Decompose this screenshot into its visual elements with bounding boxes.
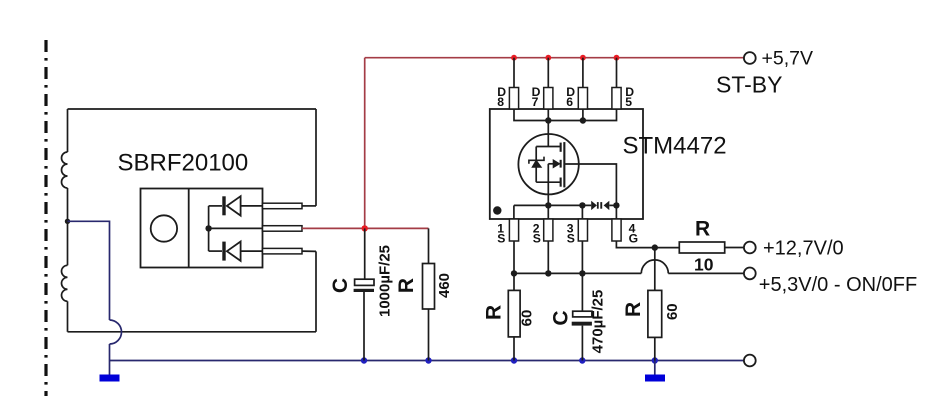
diode D1a cathode bar (222, 196, 225, 215)
svg-text:G: G (629, 231, 638, 245)
mosfet substrate contact bar (560, 160, 562, 168)
tvs diode left (591, 201, 597, 210)
terminal +5,7V (744, 52, 756, 64)
body zener triangle (532, 160, 541, 167)
wire D7 drop (547, 58, 549, 88)
inductor L1 secondary winding upper (62, 152, 68, 188)
node R460 ground (425, 357, 431, 363)
node D6 (580, 55, 586, 61)
mosfet source contact bar (560, 178, 562, 187)
node D8 (511, 55, 517, 61)
wire source rail to S1 (513, 205, 515, 219)
wire right edge lower (315, 251, 317, 331)
node C ground (361, 357, 367, 363)
resistor R1 body (423, 264, 435, 310)
svg-text:+5,7V: +5,7V (762, 48, 814, 70)
wire top pin to loop (302, 205, 316, 207)
node gate rail (613, 202, 619, 208)
node source bus S3 (579, 270, 585, 276)
wire source drop (547, 182, 549, 219)
wire S2 down (547, 241, 549, 273)
resistor R3 body (648, 290, 662, 337)
wire red riser (364, 58, 366, 229)
wire red top bus (365, 57, 744, 59)
svg-text:1000µF/25: 1000µF/25 (377, 245, 394, 317)
svg-text:STM4472: STM4472 (623, 133, 727, 160)
mosfet left branch lower (535, 167, 537, 182)
pin S2 box (544, 219, 553, 241)
body zener bar (529, 157, 544, 164)
tvs diode right (604, 201, 610, 210)
pin S1 box (509, 219, 518, 241)
resistor R4 right wire (725, 247, 744, 249)
wire tvs right link (609, 204, 616, 206)
wire source rail internal (514, 204, 591, 206)
svg-text:+5,3V/0 - ON/0FF: +5,3V/0 - ON/0FF (759, 274, 917, 296)
wire ground bus (blue) (110, 360, 744, 362)
svg-text:ST-BY: ST-BY (716, 72, 782, 98)
svg-text:7: 7 (532, 95, 539, 109)
node source rail S3 (579, 202, 585, 208)
capacitor C2 470uF top wire (581, 273, 583, 311)
node D5 (614, 55, 620, 61)
node drain bus 2 (580, 117, 586, 123)
wire to ON/OFF terminal (668, 272, 744, 274)
pin stub middle (263, 226, 303, 232)
pin stub top (263, 203, 303, 209)
node C470 ground (579, 357, 585, 363)
wire D8 drop (513, 58, 515, 88)
pin S3 box (578, 219, 587, 241)
diode D1b anode wire (241, 250, 263, 252)
wire hop over R60b (641, 260, 668, 274)
mosfet substrate wire (548, 163, 554, 165)
node common cathode (205, 225, 211, 231)
wire hop over bottom edge (110, 320, 122, 344)
pin D8 box (509, 88, 518, 110)
inductor L2 secondary winding lower (62, 265, 68, 301)
wire cathode to middle pin (209, 227, 263, 229)
ground left (100, 375, 120, 382)
capacitor C2 minus plate (572, 322, 592, 326)
resistor R4 body (679, 242, 724, 253)
pin G4 box (612, 219, 621, 241)
svg-text:C: C (329, 278, 352, 293)
svg-text:SBRF20100: SBRF20100 (118, 150, 249, 177)
wire center tap to ground (blue) (68, 221, 110, 320)
pin 1 marker (493, 206, 501, 214)
pin D5 box (612, 88, 621, 110)
resistor R2 body (508, 290, 520, 337)
dash-dot mains isolation line (44, 40, 47, 396)
svg-text:6: 6 (566, 95, 573, 109)
node source bus S1 (511, 270, 517, 276)
wire right edge upper (315, 109, 317, 206)
wire bottom edge (68, 331, 317, 333)
svg-text:8: 8 (497, 95, 504, 109)
resistor R2 60a top wire (513, 273, 515, 290)
node source rail S2 (545, 202, 551, 208)
wire left edge upper (67, 109, 69, 152)
diode D1b lower: wire to bar (209, 250, 222, 252)
diode D1a anode wire (241, 205, 263, 207)
capacitor C1 minus plate (354, 289, 374, 292)
tvs bar left (597, 202, 599, 209)
resistor R3 bottom wire (654, 337, 656, 360)
mosfet left branch upper (535, 147, 537, 161)
wire D5 drop (616, 58, 618, 88)
wire common cathode (208, 206, 210, 251)
pin D6 box (578, 88, 587, 110)
diode D1b cathode bar (222, 242, 225, 261)
wire left edge lower (67, 301, 69, 332)
terminal ON/OFF (744, 268, 756, 280)
mosfet bottom rail (536, 181, 560, 183)
svg-text:C: C (550, 310, 573, 325)
svg-text:R: R (695, 218, 710, 241)
node center tap (65, 219, 70, 224)
pin stub bottom (263, 248, 303, 254)
mosfet substrate arrow (553, 160, 560, 168)
svg-text:S: S (567, 231, 575, 245)
diode D1a upper: wire to bar (209, 205, 222, 207)
node red junction (362, 225, 368, 231)
resistor R1 bottom wire (428, 309, 430, 361)
node gate junction (652, 244, 658, 250)
capacitor C1 plus plate (355, 279, 374, 285)
node drain bus 1 (545, 117, 551, 123)
ground right (645, 375, 665, 382)
diode D1b triangle (227, 242, 241, 261)
wire left edge middle (67, 188, 69, 265)
svg-text:R: R (622, 302, 645, 317)
transistor symbol circle (518, 134, 578, 194)
svg-text:10: 10 (694, 255, 714, 275)
svg-text:5: 5 (625, 95, 632, 109)
svg-text:+12,7V/0: +12,7V/0 (763, 238, 844, 260)
svg-text:60: 60 (519, 310, 536, 327)
wire D6 drop (582, 58, 584, 88)
wire gate run (565, 164, 616, 219)
wire down to ground (109, 344, 111, 375)
capacitor C2 bottom wire (581, 326, 583, 361)
transistor U1 STM4472 body (490, 109, 643, 219)
wire bottom pin to loop (302, 250, 316, 252)
diode D1a triangle (227, 196, 241, 215)
wire transformer loop: top edge (68, 108, 317, 110)
capacitor C1 bottom wire (363, 292, 365, 361)
node source bus S2 (545, 270, 551, 276)
mosfet gate plate (563, 142, 565, 187)
wire source bus (514, 272, 641, 274)
node R60b ground (652, 357, 658, 363)
wire S3 internal (581, 205, 583, 219)
svg-text:R: R (482, 305, 505, 320)
node D7 (545, 55, 551, 61)
mosfet top rail (536, 146, 560, 148)
resistor R4 10 left wire (655, 247, 680, 249)
diode pack D1 SBRF20100 body (141, 189, 263, 268)
wire D7 internal (547, 109, 549, 147)
mosfet drain contact bar (560, 143, 562, 152)
wire G4 down to R junction (616, 241, 654, 248)
capacitor C1 1000uF: top wire (364, 228, 366, 279)
tvs bar right (600, 202, 602, 209)
svg-text:470µF/25: 470µF/25 (590, 290, 607, 354)
terminal +12,7V (744, 242, 756, 254)
mosfet center vertical (547, 164, 549, 182)
capacitor C2 plus plate (573, 311, 592, 317)
svg-text:R: R (395, 278, 418, 293)
svg-text:460: 460 (436, 273, 453, 298)
wire D6 internal (582, 109, 584, 121)
wire S3 down (581, 241, 583, 273)
resistor R1 460: top wire (428, 228, 430, 263)
resistor R2 bottom wire (513, 337, 515, 361)
svg-text:S: S (533, 231, 541, 245)
wire drain bus internal (514, 109, 617, 121)
diode pack mounting hole (151, 215, 177, 241)
wire S1 down (513, 241, 515, 273)
diode pack divider (188, 189, 190, 268)
node R60a ground (511, 357, 517, 363)
resistor R3 60b top wire (654, 248, 656, 291)
svg-text:60: 60 (664, 303, 681, 320)
wire R3 to ground (blue) (654, 361, 656, 375)
wire rectified +V (red horizontal) (302, 227, 429, 229)
pin D7 box (544, 88, 553, 110)
terminal ground (744, 355, 756, 367)
svg-text:S: S (497, 231, 505, 245)
